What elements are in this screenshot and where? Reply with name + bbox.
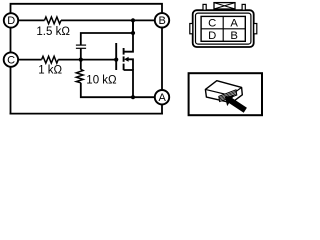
svg-text:B: B <box>159 15 166 27</box>
node B <box>155 13 169 27</box>
node D <box>4 13 18 27</box>
resistor 10 kOhm <box>76 69 83 83</box>
node A <box>155 90 169 104</box>
svg-text:C: C <box>208 17 216 29</box>
svg-text:1.5 kΩ: 1.5 kΩ <box>36 26 70 38</box>
wire resistor 1k to gate <box>58 59 116 61</box>
svg-text:D: D <box>208 30 216 42</box>
svg-text:A: A <box>230 17 238 29</box>
wire gate net to resistor 10k <box>80 60 82 70</box>
transistor Q1 gate bar <box>115 43 117 70</box>
transistor Q1 source connection <box>124 70 133 97</box>
junction gate bar <box>114 58 118 62</box>
wire D to C <box>10 26 12 54</box>
pointer arrow <box>225 95 247 113</box>
connector illustration terminal face <box>219 90 237 102</box>
transistor Q1 body wire <box>128 59 133 70</box>
svg-text:B: B <box>230 30 238 42</box>
wire resistor 1.5k to B <box>61 19 156 21</box>
transistor Q1 channel segments <box>123 48 125 70</box>
junction drain top <box>131 18 135 22</box>
svg-text:D: D <box>7 15 15 27</box>
node C <box>4 52 18 66</box>
junction source <box>131 95 135 99</box>
connector side tab right <box>254 24 257 34</box>
connector pin map outer shell <box>193 10 254 47</box>
transistor Q1 body arrow <box>124 57 129 62</box>
wire resistor 10k to source rail <box>81 83 156 97</box>
wire bottom rail <box>10 113 163 115</box>
resistor 1.5 kOhm <box>45 17 62 24</box>
wire A to bottom rail <box>161 103 163 115</box>
transistor Q1 drain connection <box>124 20 133 51</box>
wire B to A <box>161 26 163 91</box>
connector illustration body <box>205 81 242 103</box>
wire D to resistor 1.5k <box>17 19 45 21</box>
svg-text:C: C <box>7 54 15 66</box>
junction gate net <box>79 58 83 62</box>
connector top tab right <box>242 4 245 10</box>
wire C to resistor 1k <box>17 59 42 61</box>
wire C to bottom rail <box>10 65 12 115</box>
wire capacitor branch horizontal <box>81 33 133 45</box>
svg-text:10 kΩ: 10 kΩ <box>86 74 117 86</box>
junction capacitor tee <box>131 31 135 35</box>
connector lock x-box <box>214 3 235 9</box>
svg-text:1 kΩ: 1 kΩ <box>38 64 62 76</box>
component location box <box>189 73 262 115</box>
connector side tab left <box>190 24 193 34</box>
wire capacitor to gate net <box>80 48 82 59</box>
connector pin grid <box>201 16 245 41</box>
wire top rail D to B <box>11 4 163 14</box>
svg-text:A: A <box>159 92 167 104</box>
connector pin map inner shell <box>196 13 251 44</box>
capacitor <box>76 45 86 48</box>
connector top tab left <box>203 4 206 10</box>
wire junction to capacitor tee <box>132 20 134 33</box>
resistor 1 kOhm <box>42 56 59 63</box>
